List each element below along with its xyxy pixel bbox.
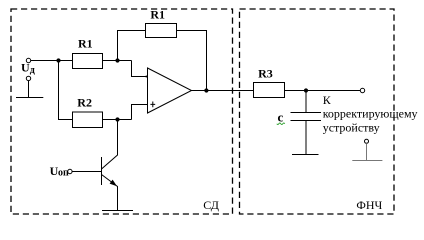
svg-text:оп: оп	[58, 167, 69, 178]
svg-text:ФНЧ: ФНЧ	[356, 198, 382, 212]
svg-text:устройству: устройству	[323, 121, 380, 135]
svg-text:U: U	[21, 61, 30, 75]
svg-text:R2: R2	[77, 96, 92, 110]
svg-text:К: К	[323, 93, 332, 107]
svg-text:корректирующему: корректирующему	[323, 106, 418, 120]
svg-text:R3: R3	[258, 67, 273, 81]
svg-text:R1: R1	[78, 37, 93, 51]
svg-text:д: д	[30, 65, 35, 76]
svg-text:СД: СД	[203, 198, 219, 212]
svg-text:с: с	[278, 109, 284, 124]
svg-text:R1: R1	[150, 8, 165, 22]
